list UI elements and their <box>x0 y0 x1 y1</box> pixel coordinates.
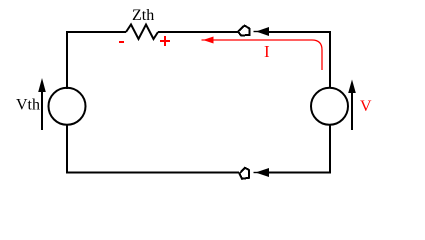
svg-text:Zth: Zth <box>132 7 154 24</box>
arrow V (black up arrow right of circle) <box>351 93 353 130</box>
arrowhead bottom (black, pointing left at node) <box>254 172 260 174</box>
wire top-left horizontal segment <box>67 32 126 33</box>
label - (red minus) <box>119 41 124 43</box>
current arrow I (red, pointing left with curve to right wire) <box>210 40 322 70</box>
node terminal top (pentagon) <box>238 26 250 36</box>
wire top right segment <box>268 31 331 33</box>
wire bottom right segment <box>268 172 331 174</box>
arrowhead top (black, pointing left at node) <box>254 31 260 33</box>
arrow Vth (black up arrow left of circle) <box>41 92 43 130</box>
source Vth (left circle) <box>49 88 86 125</box>
svg-text:V: V <box>360 98 372 115</box>
wire bottom left segment <box>66 172 239 174</box>
label + (red plus) <box>160 40 170 42</box>
wire right vertical lower segment <box>329 124 331 174</box>
wire right vertical upper segment <box>329 32 331 89</box>
wire left vertical upper segment <box>66 31 68 89</box>
svg-text:Vth: Vth <box>16 97 40 114</box>
resistor Zth <box>126 25 158 40</box>
wire left vertical lower segment <box>66 124 68 173</box>
node terminal bottom (pentagon) <box>240 168 250 179</box>
source V (right circle) <box>311 88 348 125</box>
svg-text:I: I <box>264 42 270 61</box>
wire top middle segment <box>158 31 238 33</box>
